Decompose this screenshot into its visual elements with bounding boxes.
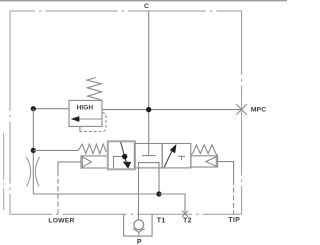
node: junction dot on left rail at pressure line bbox=[31, 106, 36, 111]
blocked port bar (C port in middle position) bbox=[142, 155, 156, 157]
valve V1: poppet actuation diagonal bbox=[121, 142, 124, 154]
window top edge bbox=[0, 0, 287, 1]
valve V1: right position flow arrow bbox=[164, 148, 173, 168]
relief valve HIGH: flow arrow bbox=[79, 118, 102, 120]
svg-text:P: P bbox=[137, 239, 142, 245]
valve V1: poppet ball bbox=[122, 154, 127, 159]
wire: bottom collector line bbox=[33, 193, 159, 195]
valve V1: left pilot box bbox=[81, 156, 108, 168]
relief valve HIGH: body bbox=[69, 100, 102, 126]
check valve at P: ball bbox=[134, 220, 144, 230]
check valve at P: body box bbox=[124, 214, 153, 236]
check valve at P: seat bbox=[133, 228, 145, 232]
check valve at P: stem bbox=[138, 232, 140, 236]
relief valve HIGH: dashed pilot line bbox=[80, 113, 106, 132]
system boundary (dash-dot frame) bbox=[10, 11, 242, 214]
window left edge bbox=[3, 133, 5, 210]
valve V1: poppet elbow line bbox=[114, 157, 123, 169]
svg-text:MPC: MPC bbox=[251, 107, 266, 114]
svg-text:T2: T2 bbox=[183, 217, 192, 224]
valve V1: envelope (active position, thick light box) bbox=[108, 141, 135, 169]
valve V1: middle position box bbox=[135, 144, 162, 168]
svg-text:LOWER: LOWER bbox=[48, 217, 74, 224]
valve V1: right pilot box bbox=[191, 156, 218, 167]
wire: pressure line right segment (relief valve to MPC) bbox=[102, 109, 242, 111]
wire: C supply vertical line bbox=[148, 11, 150, 155]
wire: TIP pilot feed bbox=[218, 162, 234, 180]
restrictor on rail (crossed curves) bbox=[26, 157, 39, 187]
valve V1: poppet seat (filled triangle) bbox=[123, 162, 131, 169]
svg-text:T1: T1 bbox=[157, 217, 166, 224]
wire: LOWER pilot feed line bbox=[58, 162, 81, 171]
wire: tank branch to T2 bbox=[159, 194, 185, 214]
valve V1: right position box bbox=[162, 144, 191, 168]
wire: left rail vertical bbox=[32, 109, 34, 194]
valve V1: left spring bbox=[78, 144, 108, 153]
node: junction dot rail / spring feed bbox=[31, 148, 36, 153]
check valve at P: feed line bbox=[138, 214, 140, 220]
orifice plug MPC (X symbol) bbox=[236, 104, 247, 114]
A-port passage (inverted U below middle box) bbox=[139, 163, 160, 215]
relief valve HIGH: spring bbox=[87, 78, 102, 100]
dashed pilot line to TIP bbox=[233, 180, 235, 214]
relief valve HIGH: pilot stub bbox=[79, 126, 81, 131]
orifice plug at T2 (X symbol) bbox=[182, 211, 188, 217]
dashed pilot line to LOWER bbox=[57, 171, 59, 214]
valve V1: poppet seat stem bbox=[124, 159, 127, 162]
wire: spring feed line bbox=[33, 149, 78, 151]
node: junction dot collector / tank branch bbox=[156, 191, 161, 196]
svg-text:C: C bbox=[144, 3, 149, 10]
valve V1: right position blocked port T bbox=[178, 156, 185, 160]
valve V1: right spring bbox=[191, 145, 218, 156]
node: junction dot C line / pressure line bbox=[146, 107, 151, 112]
svg-text:TIP: TIP bbox=[228, 217, 240, 224]
wire: pressure line left segment (rail to relief valve) bbox=[33, 108, 69, 110]
svg-text:HIGH: HIGH bbox=[77, 105, 94, 112]
